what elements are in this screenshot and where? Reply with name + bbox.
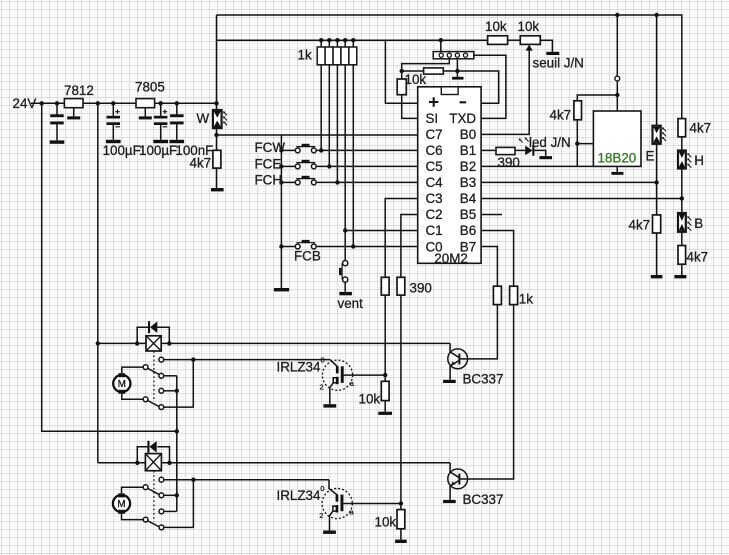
svg-text:C4: C4: [426, 175, 444, 190]
svg-text:B2: B2: [460, 159, 476, 174]
transistor BC337 circle: [448, 469, 468, 489]
MOSFET channel plates: [336, 495, 339, 502]
wire B2 to 18B20 data: [481, 165, 593, 167]
wire vertical x216 from top wire through bus to rail and W: [216, 15, 218, 110]
svg-text:BC337: BC337: [463, 492, 504, 507]
resistor 10k Q1 box: [381, 381, 389, 400]
LDR W light arrows: [223, 111, 227, 115]
ground of 10k Q1: [378, 412, 392, 415]
relay2 contact dotted actuator: [153, 471, 155, 522]
wire relay1/relay2 24V feed vertical: [176, 376, 178, 512]
node 18B20 vdd junction: [615, 93, 619, 97]
relay coil box: [145, 454, 161, 471]
relay2 contact R2: [164, 494, 177, 496]
regulator 7812 ground tab: [73, 108, 75, 117]
wire DS18B20 supply drop with connector bubble: [616, 15, 618, 76]
wire relay1 coil line from 12V to BC337-1: [98, 342, 450, 344]
relay2 contact R3: [164, 510, 177, 512]
LED H element: [678, 151, 686, 169]
wire 4k7 E to ground: [656, 233, 658, 275]
wire 390 to led: [515, 149, 525, 151]
capacitor C-in1 leads: [56, 103, 58, 114]
wire C1 pin line: [345, 230, 418, 232]
photodiode E arrows: [662, 127, 666, 131]
svg-text:IRLZ34: IRLZ34: [277, 488, 321, 503]
node coil terminal dots: [135, 341, 139, 345]
ground below 4k7: [211, 188, 224, 191]
resistor 10k horizontal: [402, 70, 424, 72]
resistor 4k7 pullup box: [574, 101, 582, 120]
svg-text:B4: B4: [460, 191, 477, 206]
svg-text:4k7: 4k7: [550, 108, 572, 123]
connector vent upper contact: [343, 261, 348, 266]
svg-text:C5: C5: [426, 159, 443, 174]
IC 20M2 box: [418, 87, 481, 263]
svg-text:2: 2: [319, 511, 323, 520]
relay2 blade2: [148, 521, 160, 527]
svg-text:a: a: [350, 507, 355, 516]
svg-text:4k7: 4k7: [190, 156, 212, 171]
node coil terminal dots: [135, 461, 139, 465]
resistor 390 Q1 box: [381, 277, 389, 295]
wire B1 to 390: [481, 149, 496, 151]
svg-text:2: 2: [320, 383, 324, 392]
wire LED B to 4k7: [681, 232, 683, 246]
svg-text:7805: 7805: [135, 80, 165, 95]
relay1 contact R1 to MOSFET drain: [164, 359, 330, 361]
svg-text:TXD: TXD: [449, 111, 476, 126]
flyback diode: [147, 441, 149, 453]
relay1 contact dotted actuator: [153, 351, 155, 401]
svg-text:4k7: 4k7: [687, 250, 709, 265]
svg-text:B5: B5: [460, 207, 476, 222]
node H/B junction dot: [680, 196, 684, 200]
wire 390 Q2 down to gate node: [400, 295, 402, 510]
ground of vent: [339, 292, 352, 295]
resistor 4k7 E box: [653, 215, 661, 233]
flyback diode: [148, 321, 150, 333]
wire TXD to header: [474, 55, 506, 118]
wire 10k Q1 to ground: [384, 401, 386, 412]
wire to 4k7 pullup: [577, 95, 617, 101]
wire top +V rail going right to H/B column: [217, 15, 682, 119]
capacitor 100uF #2 plates with polarity: [154, 116, 168, 119]
relay1 contact L1 to motor1 plus: [122, 367, 143, 373]
BC337 emitter with arrow: [450, 361, 458, 366]
svg-text:390: 390: [498, 155, 520, 170]
svg-text:BC337: BC337: [463, 372, 504, 387]
ground of MOSFET source: [323, 404, 336, 407]
MOSFET gate plate: [341, 366, 344, 383]
wire 12V rail drop to relay coils: [97, 103, 99, 463]
resistor 10k Q2 box: [397, 510, 405, 529]
node divider junction dot: [214, 133, 218, 137]
IC 18B20 box: [593, 111, 641, 166]
resistor 10k pot-left box: [488, 36, 508, 45]
svg-text:10k: 10k: [375, 515, 397, 530]
photodiode E element: [653, 126, 661, 144]
wire LED H to junction: [681, 169, 683, 214]
wire 1k B7 down to BC337-1 base: [468, 305, 498, 359]
relay1 blade1: [148, 368, 160, 374]
wire +5V bus between 10k resistors: [508, 39, 521, 41]
svg-text:IRLZ34: IRLZ34: [277, 360, 321, 375]
svg-text:4k7: 4k7: [690, 121, 712, 136]
regulator 7812 box: [64, 99, 83, 108]
LED H arrows: [687, 153, 691, 157]
MOSFET dotted circle: [322, 488, 352, 518]
wire minus pin route to header ground: [457, 71, 498, 103]
capacitor 100nF leads: [176, 103, 178, 114]
wire header pin1 to bus: [440, 40, 442, 51]
ground of 18B20: [616, 166, 618, 172]
svg-text:100µF: 100µF: [103, 143, 141, 158]
node relay1 R1 dot: [191, 357, 195, 361]
svg-text:FCB: FCB: [294, 249, 321, 264]
LED B element: [678, 213, 686, 232]
MOSFET dotted circle: [322, 360, 352, 390]
resistor network column to C0/FCB: [352, 65, 354, 247]
node E/B3 junction dot: [654, 180, 658, 184]
BC337 emitter with arrow: [450, 481, 458, 486]
regulator 7805 box: [136, 99, 155, 108]
ground of C-in1: [50, 140, 65, 143]
svg-text:FCW: FCW: [255, 140, 286, 155]
svg-text:C2: C2: [426, 207, 443, 222]
wire W to divider node and C7 line: [216, 128, 218, 150]
LED led J/N triangle: [525, 146, 532, 156]
capacitor 100uF #1 plates with polarity: [107, 116, 121, 119]
wire Q1 gate to node: [344, 374, 386, 376]
svg-text:18B20: 18B20: [598, 151, 637, 166]
IC notch: [441, 87, 458, 95]
junction dots on 24V rail: [40, 101, 44, 105]
wire 4k7 B to ground: [681, 264, 683, 275]
relay1 contact R2: [164, 375, 177, 377]
wire 24V rail drop to relay contacts feed: [42, 103, 177, 431]
resistor 390 Q2 box: [397, 277, 405, 295]
BC337 base bar: [458, 474, 460, 485]
relay2 contact L1 to motor2 plus: [122, 487, 144, 493]
svg-text:4k7: 4k7: [629, 218, 651, 233]
svg-text:C3: C3: [426, 191, 443, 206]
BC337 base wire inside: [460, 358, 468, 360]
svg-text:100µF: 100µF: [139, 143, 177, 158]
svg-text:W: W: [197, 111, 210, 126]
node serial junction dots: [400, 69, 404, 73]
resistor 1k on B7 box: [493, 286, 501, 304]
connector vent actuator: [341, 263, 343, 279]
svg-text:B1: B1: [460, 143, 476, 158]
resistor network 1k boxes: [317, 47, 325, 65]
wire B3 to E column: [481, 181, 656, 183]
relay1 contact L2 to motor1 minus: [122, 394, 143, 400]
wire 390 Q1 to gate node: [384, 295, 386, 381]
resistor network column to C6/FCW: [320, 65, 322, 151]
node relay1 12V dot: [96, 341, 100, 345]
svg-text:led J/N: led J/N: [529, 135, 571, 150]
BC337 emitter to ground: [449, 366, 451, 380]
wire 4k7 to data node: [576, 120, 578, 167]
ground of E column: [651, 275, 663, 278]
MOSFET source bracket and exit: [333, 378, 338, 383]
wire 4k7 to ground: [216, 168, 218, 188]
resistor 1k on B6 box: [510, 286, 518, 304]
svg-text:C7: C7: [426, 127, 443, 142]
node feed dots: [175, 389, 179, 393]
switch FCH: [281, 181, 295, 183]
resistor vertical on SI: [401, 71, 403, 79]
svg-text:1k: 1k: [519, 292, 533, 307]
resistor network column to C4/FCH: [336, 65, 338, 183]
LDR W photo element: [213, 110, 222, 128]
MOSFET source bracket and exit: [333, 506, 338, 511]
switch FCW: [281, 149, 295, 151]
LED B arrows: [687, 216, 691, 220]
wire Q2 gate to node: [343, 503, 401, 505]
wire B7 to 1k and BC337-1 base: [481, 247, 497, 287]
ground of BC337: [443, 380, 456, 383]
node relay2 R1 dot: [191, 478, 195, 482]
motor M1: [113, 375, 130, 392]
resistor 10k pot-right box (potentiometer): [520, 36, 540, 45]
wire header pin3 to ground: [456, 59, 458, 77]
junction dots on switch rail: [279, 148, 283, 152]
svg-text:vent: vent: [338, 296, 364, 311]
capacitor 100nF plates: [170, 114, 184, 117]
relay1 blade2: [148, 401, 160, 407]
ground of switch rail: [274, 288, 289, 291]
relay2 contact R4 to drain net: [164, 480, 194, 528]
wire 10k Q2 to ground: [400, 529, 402, 540]
svg-text:B6: B6: [460, 223, 476, 238]
svg-text:B: B: [694, 216, 703, 231]
ground of header: [452, 77, 463, 80]
node Q1 gate junction dot: [383, 373, 387, 377]
wire relay2 coil line from 12V to BC337-2: [98, 462, 450, 464]
relay2 contact L2 to motor2 minus: [122, 514, 144, 520]
svg-text:E: E: [646, 149, 655, 164]
svg-text:C1: C1: [426, 223, 443, 238]
svg-text:C6: C6: [426, 143, 443, 158]
svg-text:0: 0: [321, 356, 325, 365]
svg-text:20M2: 20M2: [434, 251, 468, 266]
resistor 4k7 B box: [678, 246, 686, 265]
regulator 7805 ground tab: [144, 108, 146, 117]
relay1 contact R3: [164, 390, 177, 392]
wire +5V bus to seuil ground: [540, 40, 552, 52]
relay2 contact R1 to MOSFET2 drain: [164, 479, 329, 481]
wire C7 line from divider to IC: [217, 134, 418, 136]
node data junction dot: [575, 141, 579, 145]
resistor 4k7 below W: [213, 150, 221, 168]
connector vent lower contact: [343, 277, 348, 282]
ground of 100nF: [170, 140, 185, 143]
photodiode E column wire: [656, 15, 658, 126]
wire B6 to 1k and BC337-2 base: [481, 231, 513, 287]
svg-text:390: 390: [410, 281, 432, 296]
BC337 emitter to ground: [449, 486, 451, 500]
flyback diode loop: [137, 447, 147, 463]
wire C2 to 390 gate resistor Q2: [401, 215, 418, 278]
wire 24V rail: [31, 102, 217, 104]
svg-text:10k: 10k: [359, 392, 381, 407]
MOSFET drain wire entry: [330, 360, 337, 367]
resistor network top stubs and bus dots: [320, 40, 322, 47]
node Q2 gate junction dot: [399, 501, 403, 505]
svg-text:seuil J/N: seuil J/N: [533, 56, 584, 71]
LED led J/N cathode bar: [532, 145, 534, 156]
svg-text:M: M: [117, 499, 125, 510]
ground of H/B column: [674, 275, 686, 278]
svg-text:SI: SI: [426, 111, 439, 126]
svg-text:FCH: FCH: [255, 173, 283, 188]
switch FCE: [281, 165, 295, 167]
flyback diode loop: [137, 327, 148, 343]
transistor BC337 circle: [448, 349, 468, 369]
ground of 100uF #1: [106, 140, 121, 143]
wire C3 to 390 gate resistor Q1: [385, 199, 418, 278]
wire +5V feed to IC plus pin: [385, 40, 417, 103]
wire limit-switch ground rail: [280, 135, 282, 288]
wire B5 stub: [481, 214, 502, 216]
resistor 4k7 H box: [678, 119, 686, 137]
BC337 collector entry: [450, 463, 458, 477]
relay1 contact R4 to drain net: [164, 360, 194, 408]
LED light arrows: [519, 138, 523, 142]
BC337 base bar: [458, 354, 460, 365]
capacitor 100uF #1 leads: [112, 103, 114, 116]
relay2 blade1: [148, 488, 160, 494]
capacitor 100uF #2 leads: [160, 103, 162, 116]
wire +5V bus: [217, 39, 488, 41]
ground of 10k Q2: [395, 540, 407, 543]
ground of led: [539, 156, 552, 159]
IC pin label minus: [460, 101, 467, 103]
ground of BC337: [443, 500, 456, 503]
wire B4 to H/B column: [481, 198, 682, 200]
ground of MOSFET source: [323, 531, 336, 534]
ground of 100uF #2: [153, 140, 168, 143]
connector header circles: [439, 53, 443, 57]
BC337 collector entry: [450, 343, 458, 357]
svg-text:0: 0: [320, 484, 324, 493]
potentiometer wiper arrow from B0: [481, 49, 529, 135]
MOSFET channel plates: [336, 366, 339, 373]
svg-text:H: H: [694, 153, 704, 168]
wire header pin2 to serial-in network: [402, 59, 450, 71]
IC pin label plus: [429, 97, 438, 107]
wire SI resistor to SI pin: [402, 95, 418, 119]
svg-text:M: M: [118, 379, 126, 390]
motor M2: [113, 495, 130, 512]
ground of seuil divider: [546, 52, 559, 55]
svg-text:7812: 7812: [64, 83, 94, 98]
resistor network column to C1 and vent: [344, 65, 346, 261]
svg-text:B3: B3: [460, 175, 476, 190]
svg-text:10k: 10k: [485, 19, 507, 34]
resistor 390 on B1 box: [496, 147, 515, 154]
svg-text:FCE: FCE: [255, 156, 282, 171]
wire 4k7 H to LED H: [681, 137, 683, 151]
connector programming header box: [433, 52, 474, 59]
switch FCB: [281, 246, 295, 248]
svg-text:1k: 1k: [298, 48, 312, 63]
MOSFET drain wire entry: [329, 480, 337, 495]
wire 1k B6 down to BC337-2 base: [468, 305, 514, 479]
MOSFET gate plate: [341, 495, 344, 512]
BC337 base wire inside: [460, 478, 468, 480]
svg-text:a: a: [350, 379, 355, 388]
wire E element to 4k7: [656, 144, 658, 215]
relay coil box: [146, 336, 161, 351]
svg-text:B0: B0: [460, 127, 476, 142]
wire data node to 18B20: [577, 143, 593, 145]
svg-text:10k: 10k: [518, 19, 540, 34]
wire vent to ground: [344, 282, 346, 292]
capacitor C-in1 plates: [50, 114, 64, 117]
resistor network column to C5/FCE: [328, 65, 330, 167]
wire led to ground: [534, 150, 545, 156]
